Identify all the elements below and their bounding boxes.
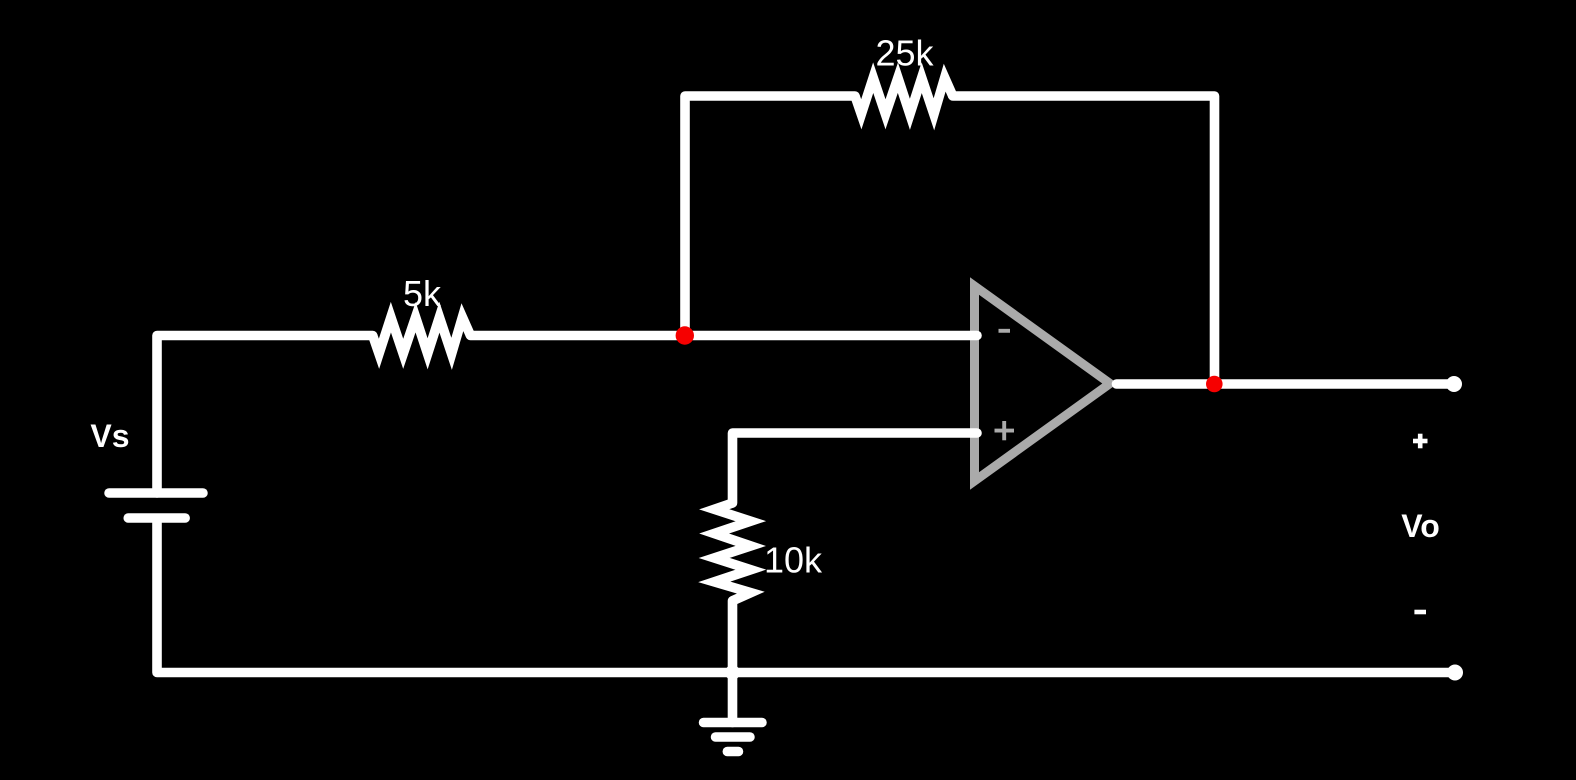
op-amp inverting input minus sign bbox=[999, 329, 1011, 333]
label - (output polarity) bbox=[1414, 610, 1426, 615]
resistor R2 25k zigzag bbox=[855, 78, 953, 115]
ground symbol bbox=[704, 673, 763, 752]
node A junction dot (inverting input node, red) bbox=[676, 326, 694, 344]
wire: Vs top to R1 entry bbox=[157, 336, 373, 494]
wire: node A up to R2 entry bbox=[685, 96, 855, 336]
wire: R3 exit down to ground rail bbox=[728, 601, 738, 673]
resistor R1 5k zigzag bbox=[373, 317, 471, 354]
wire: R2 exit down to output node B bbox=[953, 96, 1215, 384]
svg-text:Vo: Vo bbox=[1401, 508, 1440, 544]
op-amp non-inverting input plus sign bbox=[995, 421, 1015, 440]
wire: op-amp output to terminal bbox=[1117, 379, 1455, 389]
svg-text:Vs: Vs bbox=[90, 418, 129, 454]
svg-text:5k: 5k bbox=[403, 273, 442, 314]
resistor R3 10k zigzag bbox=[714, 503, 751, 601]
node B junction dot (output node, red) bbox=[1206, 376, 1223, 393]
battery source Vs: long plate bbox=[109, 488, 203, 498]
wire: non-inverting input to R3 entry bbox=[733, 433, 978, 503]
wire: bottom ground rail from Vs to output terminal bbox=[157, 520, 1455, 673]
output terminal bottom bbox=[1447, 665, 1463, 681]
svg-text:10k: 10k bbox=[764, 540, 823, 581]
wire: R1 exit to op-amp inverting input bbox=[471, 331, 978, 341]
svg-text:25k: 25k bbox=[875, 33, 934, 74]
battery source Vs: short plate bbox=[128, 513, 185, 523]
output terminal top bbox=[1446, 376, 1462, 392]
junction dot at ground rail / R3 bbox=[725, 665, 740, 680]
op-amp U1 triangle bbox=[975, 286, 1111, 481]
label + (output polarity) bbox=[1413, 434, 1428, 449]
